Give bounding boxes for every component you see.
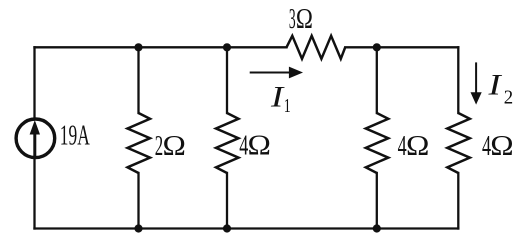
resistor R4 4ohm zigzag (366, 113, 389, 173)
node dot bottom B2 (223, 224, 231, 232)
svg-text:Ω: Ω (248, 129, 271, 162)
wire left vertical lower (33, 159, 35, 228)
svg-text:Ω: Ω (406, 129, 429, 162)
node dot bottom B3 (373, 224, 381, 232)
wire branch B1 lower (137, 173, 139, 229)
svg-text:Ω: Ω (490, 129, 513, 162)
svg-text:1: 1 (284, 95, 291, 117)
wire branch B1 upper (137, 47, 139, 113)
wire top-left segment (35, 46, 287, 48)
svg-text:19A: 19A (60, 120, 90, 152)
current I2 arrowhead (471, 92, 482, 104)
current source arrow shaft (33, 132, 36, 157)
svg-text:3: 3 (289, 3, 296, 35)
current I1 arrowhead (289, 67, 303, 79)
wire top-right segment (345, 46, 458, 48)
wire branch B2 upper (226, 47, 228, 113)
current I2 arrow shaft (475, 62, 477, 93)
wire branch B3 upper (376, 47, 378, 113)
wire bottom (35, 227, 459, 229)
svg-text:Ω: Ω (296, 3, 313, 35)
svg-text:I: I (487, 69, 502, 102)
node dot top B1 (134, 43, 142, 51)
wire branch B3 lower (376, 173, 378, 229)
svg-text:Ω: Ω (163, 129, 186, 162)
resistor R3 4ohm zigzag (216, 113, 239, 173)
node dot top B2 (223, 43, 231, 51)
resistor R5 4ohm zigzag (447, 113, 470, 173)
wire branch B4 lower (457, 173, 459, 229)
current source I19A circle (16, 119, 55, 158)
resistor R1 3ohm zigzag (287, 36, 346, 59)
current I1 arrow shaft (250, 72, 291, 74)
wire branch B4 upper (457, 47, 459, 113)
resistor R2 2ohm zigzag (128, 113, 151, 173)
wire left vertical (33, 47, 35, 117)
node dot bottom B1 (134, 224, 142, 232)
node dot top B3 (373, 43, 381, 51)
svg-text:2: 2 (504, 87, 513, 109)
current source arrowhead (30, 120, 40, 134)
svg-text:I: I (270, 80, 285, 113)
wire branch B2 lower (226, 173, 228, 229)
